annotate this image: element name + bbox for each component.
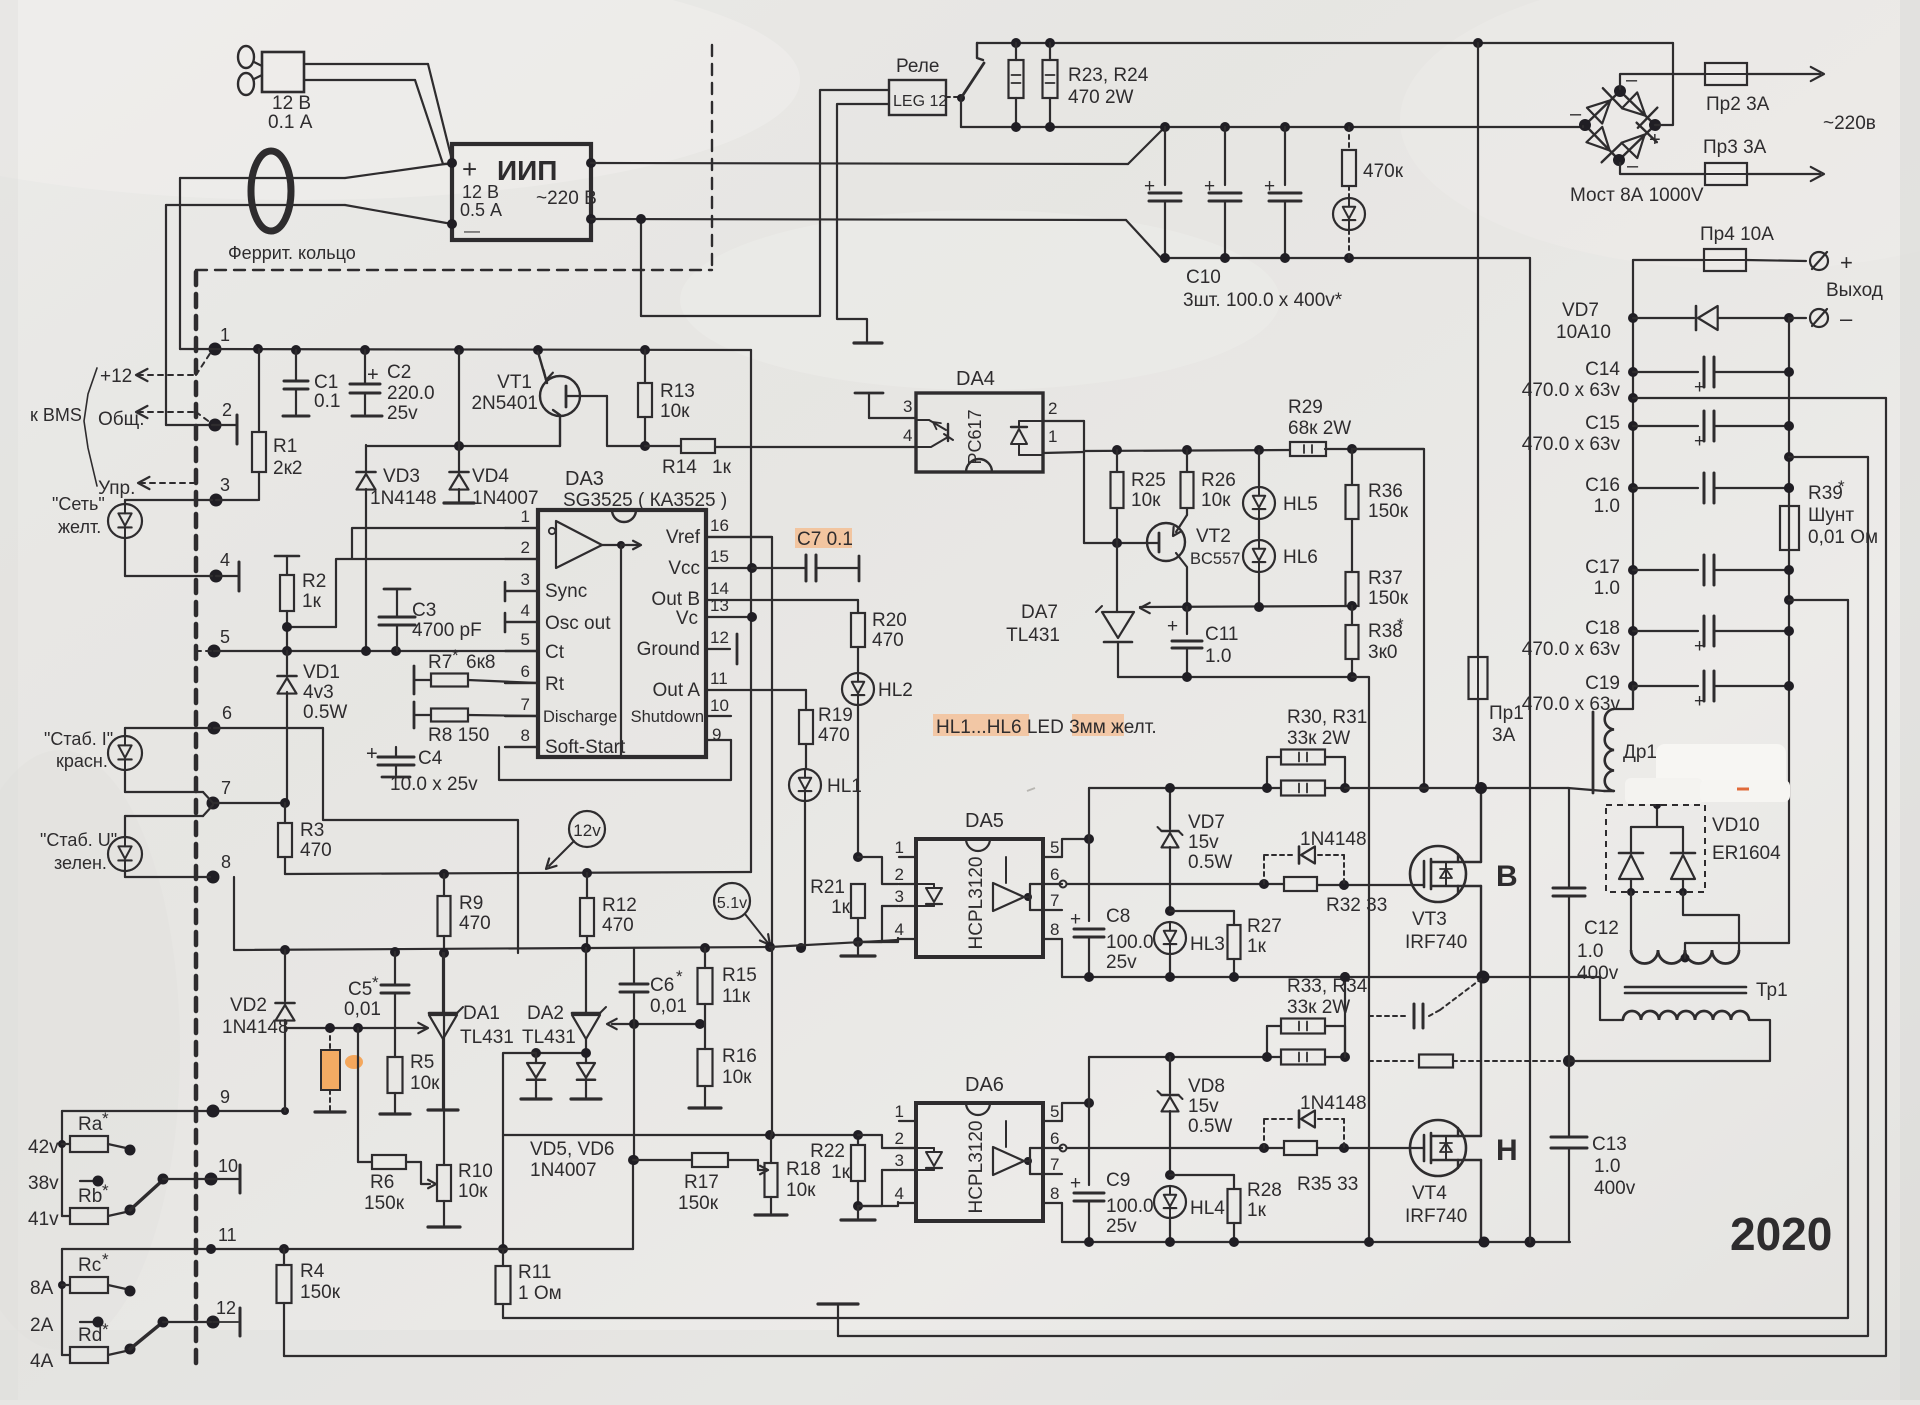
svg-text:38v: 38v bbox=[28, 1173, 59, 1194]
capacitor C10c bbox=[1264, 127, 1301, 258]
wire R6 chain bbox=[358, 1028, 372, 1162]
capacitor C3 4700pF bbox=[379, 589, 482, 651]
svg-text:PC617: PC617 bbox=[965, 409, 985, 464]
power rail 12v bbox=[285, 868, 751, 879]
svg-text:VD8: VD8 bbox=[1188, 1076, 1225, 1097]
svg-text:DA6: DA6 bbox=[965, 1074, 1004, 1096]
resistor R32 33 bbox=[1284, 877, 1387, 916]
svg-text:Soft-Start: Soft-Start bbox=[545, 737, 626, 758]
snubber diode 1N4148 bottom bbox=[1264, 1093, 1367, 1148]
wire VT4 drain bbox=[1458, 977, 1481, 1242]
relay LEG 12 bbox=[889, 56, 947, 115]
AUX PSU block IIP bbox=[447, 144, 597, 240]
svg-text:150к: 150к bbox=[300, 1282, 341, 1303]
LED HL3 bbox=[1154, 922, 1225, 977]
wire rail788 bbox=[1089, 783, 1429, 793]
svg-text:150к: 150к bbox=[678, 1193, 719, 1214]
resistor R23 bbox=[1009, 43, 1024, 127]
svg-text:1 Ом: 1 Ом bbox=[518, 1283, 562, 1304]
svg-text:0,01: 0,01 bbox=[344, 999, 381, 1020]
snubber res dashed bbox=[1369, 1055, 1575, 1068]
svg-text:R28: R28 bbox=[1247, 1180, 1282, 1201]
svg-text:2020: 2020 bbox=[1730, 1208, 1832, 1260]
border loop outer bbox=[284, 398, 1886, 1356]
resistor R7 6k8 bbox=[414, 646, 538, 694]
svg-text:8А: 8А bbox=[30, 1278, 54, 1299]
wire HL2 to DA5 pin2 bbox=[858, 857, 898, 884]
svg-text:10к: 10к bbox=[1201, 490, 1231, 511]
svg-text:R5: R5 bbox=[410, 1052, 434, 1073]
resistor R9 470 bbox=[438, 874, 491, 953]
wire ferrite upper bbox=[180, 163, 452, 178]
wire gate stub VT3 bbox=[1423, 884, 1425, 886]
svg-text:470.0 х 63v: 470.0 х 63v bbox=[1522, 434, 1621, 455]
svg-text:10A10: 10A10 bbox=[1556, 322, 1611, 343]
svg-text:6к8: 6к8 bbox=[466, 652, 495, 673]
svg-text:желт.: желт. bbox=[58, 517, 101, 537]
svg-text:8: 8 bbox=[1050, 1184, 1059, 1203]
svg-text:1N4148: 1N4148 bbox=[1300, 829, 1367, 850]
svg-text:16: 16 bbox=[710, 516, 729, 535]
wire top mains rail bbox=[977, 38, 1673, 48]
svg-text:R35 33: R35 33 bbox=[1297, 1174, 1358, 1195]
svg-text:DA7: DA7 bbox=[1021, 602, 1058, 623]
svg-text:R32 33: R32 33 bbox=[1326, 895, 1387, 916]
svg-text:R3: R3 bbox=[300, 820, 324, 841]
label 12v circle bbox=[546, 811, 605, 869]
svg-text:4v3: 4v3 bbox=[303, 682, 334, 703]
ground R22 bbox=[841, 1206, 875, 1220]
svg-text:Rc: Rc bbox=[78, 1255, 101, 1276]
svg-text:VD7: VD7 bbox=[1562, 300, 1599, 321]
wire DA6 pin2 line bbox=[898, 1147, 916, 1149]
svg-text:7: 7 bbox=[521, 695, 530, 714]
wire DA6 pin5 supply bbox=[1062, 1098, 1094, 1121]
svg-text:*: * bbox=[102, 1320, 109, 1339]
label DA3 part number bbox=[563, 490, 727, 511]
svg-text:+: + bbox=[366, 743, 378, 765]
LED Stab I red bbox=[44, 728, 213, 803]
resistor R4 150k bbox=[277, 1249, 341, 1356]
svg-text:15v: 15v bbox=[1188, 832, 1219, 853]
svg-text:R17: R17 bbox=[684, 1172, 719, 1193]
wire bus x1369 bbox=[1352, 677, 1369, 1242]
wire node6 to feedback bbox=[214, 728, 518, 953]
svg-text:+: + bbox=[1840, 250, 1853, 275]
svg-text:VD4: VD4 bbox=[472, 466, 509, 487]
wire IIP +12 output bbox=[591, 163, 1128, 164]
svg-text:VT2: VT2 bbox=[1196, 526, 1231, 547]
svg-text:Shutdown: Shutdown bbox=[631, 708, 704, 726]
wire rail 677 bbox=[1118, 672, 1357, 682]
svg-text:9: 9 bbox=[712, 725, 721, 744]
svg-text:C11: C11 bbox=[1205, 624, 1238, 645]
LED Stab U green bbox=[40, 805, 213, 877]
wire midpoint rail bbox=[1062, 971, 1600, 984]
svg-text:VD5, VD6: VD5, VD6 bbox=[530, 1139, 614, 1160]
svg-text:Тр1: Тр1 bbox=[1756, 980, 1788, 1001]
label 220v out bbox=[1823, 113, 1876, 134]
capacitor C7 0.1 bbox=[752, 528, 859, 581]
svg-text:470к: 470к bbox=[1363, 161, 1404, 182]
capacitor C8 100.0 25v bbox=[1070, 906, 1154, 977]
svg-text:R22: R22 bbox=[810, 1141, 845, 1162]
svg-text:–: – bbox=[1570, 103, 1582, 125]
ground R21 bbox=[841, 942, 875, 956]
snubber cap dashed bbox=[1369, 979, 1481, 1028]
svg-text:HL1...HL6 LED 3мм желт.: HL1...HL6 LED 3мм желт. bbox=[936, 717, 1157, 738]
svg-text:R10: R10 bbox=[458, 1161, 493, 1182]
svg-text:15v: 15v bbox=[1188, 1096, 1219, 1117]
svg-text:12: 12 bbox=[710, 628, 729, 647]
shunt R39 0.01 bbox=[1780, 477, 1878, 550]
svg-text:150к: 150к bbox=[1368, 501, 1409, 522]
LED HL6 bbox=[1243, 540, 1318, 607]
svg-text:*: * bbox=[102, 1181, 109, 1200]
bleeder resistor 470k bbox=[1342, 127, 1404, 197]
svg-text:470.0 x 63v: 470.0 x 63v bbox=[1522, 694, 1621, 715]
wire R29 to rail bbox=[1352, 449, 1424, 788]
svg-text:Реле: Реле bbox=[896, 56, 939, 77]
capacitor C14 bbox=[1522, 357, 1794, 401]
wire Vref vertical bbox=[706, 537, 772, 947]
svg-text:TL431: TL431 bbox=[522, 1027, 576, 1048]
node 5 bbox=[196, 627, 230, 658]
svg-text:+12: +12 bbox=[100, 366, 132, 387]
optocoupler DA4 PC817 bbox=[916, 368, 1043, 472]
svg-text:C4: C4 bbox=[418, 748, 443, 769]
svg-text:13: 13 bbox=[710, 596, 729, 615]
resistor R10 10k trimmer bbox=[428, 953, 493, 1227]
node 6 bbox=[208, 703, 233, 735]
resistor R31 bbox=[1262, 781, 1350, 796]
svg-text:Пр2 3А: Пр2 3А bbox=[1706, 94, 1770, 115]
svg-text:HL5: HL5 bbox=[1283, 494, 1318, 515]
svg-text:0.5 А: 0.5 А bbox=[460, 200, 502, 220]
svg-text:1к: 1к bbox=[1247, 1200, 1267, 1221]
svg-text:Out A: Out A bbox=[652, 680, 700, 701]
fan motor 12V 0.1A bbox=[238, 46, 313, 133]
svg-text:VD2: VD2 bbox=[230, 995, 267, 1016]
wire center tap bbox=[1685, 943, 1789, 958]
svg-text:R14: R14 bbox=[662, 457, 697, 478]
resistor R22 1k bbox=[810, 1130, 865, 1211]
wire bottom rail bbox=[1062, 1237, 1570, 1248]
resistor R18 10k trimmer bbox=[755, 1135, 821, 1215]
wire node5 line bbox=[214, 646, 538, 656]
MOSFET VT4 IRF740 bbox=[1405, 1120, 1518, 1227]
svg-text:C16: C16 bbox=[1585, 475, 1620, 496]
label 2020 bbox=[1730, 1208, 1832, 1260]
wire contact to rail127 bbox=[961, 98, 1016, 127]
LED HL4 bbox=[1154, 1186, 1225, 1242]
svg-text:4А: 4А bbox=[30, 1351, 54, 1372]
wire ref line 607 bbox=[1140, 601, 1357, 612]
svg-text:ER1604: ER1604 bbox=[1712, 843, 1781, 864]
svg-text:C12: C12 bbox=[1584, 918, 1619, 939]
wire node9 link bbox=[213, 1107, 289, 1115]
LED HL1 bbox=[789, 744, 862, 948]
wire base drop bbox=[607, 396, 650, 451]
svg-text:10к: 10к bbox=[458, 1181, 488, 1202]
wire choke to VD10 bbox=[1653, 791, 1661, 827]
svg-text:R7: R7 bbox=[428, 652, 452, 673]
svg-text:12 В: 12 В bbox=[272, 93, 311, 114]
svg-text:DA1: DA1 bbox=[463, 1003, 500, 1024]
svg-text:+: + bbox=[367, 364, 379, 386]
svg-text:33к 2W: 33к 2W bbox=[1287, 728, 1350, 749]
svg-text:3: 3 bbox=[895, 1151, 904, 1170]
svg-text:6: 6 bbox=[521, 662, 530, 681]
wire R22 to DA6 pins bbox=[858, 1135, 898, 1206]
svg-text:Rt: Rt bbox=[545, 674, 565, 695]
svg-text:R15: R15 bbox=[722, 965, 757, 986]
svg-text:1: 1 bbox=[895, 838, 904, 857]
svg-text:Vref: Vref bbox=[666, 527, 701, 548]
svg-text:Пр1: Пр1 bbox=[1489, 703, 1524, 724]
svg-text:8: 8 bbox=[221, 852, 231, 872]
diode VD5 bbox=[521, 1048, 586, 1099]
svg-text:12: 12 bbox=[216, 1298, 236, 1318]
zener VD8 15v bbox=[1158, 1057, 1233, 1180]
svg-text:–: – bbox=[1840, 306, 1853, 331]
svg-text:470: 470 bbox=[872, 630, 904, 651]
wire Vref feed DA5 pin4 bbox=[770, 940, 898, 947]
capacitor C6 bbox=[620, 948, 687, 1024]
wire fan to AUX PSU bbox=[304, 64, 452, 164]
LED HL5 bbox=[1243, 450, 1318, 540]
svg-text:2к2: 2к2 bbox=[273, 458, 302, 479]
optocoupler driver DA5 bbox=[895, 810, 1062, 957]
svg-text:11: 11 bbox=[218, 1225, 237, 1245]
svg-text:ИИП: ИИП bbox=[497, 155, 557, 186]
svg-text:8: 8 bbox=[1050, 920, 1059, 939]
resistor R33 bbox=[1267, 976, 1368, 1057]
resistor R24 bbox=[1043, 43, 1149, 127]
svg-text:R33, R34: R33, R34 bbox=[1287, 976, 1368, 997]
svg-text:0.5W: 0.5W bbox=[1188, 1116, 1232, 1137]
svg-text:C19: C19 bbox=[1585, 673, 1620, 694]
resistor R8 150 bbox=[414, 702, 538, 746]
svg-text:400v: 400v bbox=[1577, 963, 1619, 984]
svg-text:2: 2 bbox=[521, 538, 530, 557]
svg-text:25v: 25v bbox=[1106, 1216, 1137, 1237]
svg-text:1N4148: 1N4148 bbox=[370, 488, 437, 509]
svg-text:+: + bbox=[1694, 377, 1705, 398]
wire hv minus bus bbox=[1529, 258, 1531, 1242]
wire DA5 pin5 supply bbox=[1062, 834, 1094, 857]
selector Rc Rd bbox=[30, 1249, 240, 1372]
svg-text:*: * bbox=[102, 1250, 109, 1269]
arrow Upr bbox=[98, 477, 196, 499]
svg-text:R19: R19 bbox=[818, 705, 853, 726]
wire DA5 pin8 down bbox=[1061, 939, 1063, 977]
svg-text:+: + bbox=[1070, 909, 1081, 930]
capacitor C4 bbox=[366, 743, 478, 795]
svg-text:5: 5 bbox=[1050, 1102, 1059, 1121]
svg-text:1к: 1к bbox=[831, 897, 851, 918]
svg-text:SG3525 ( КА3525 ): SG3525 ( КА3525 ) bbox=[563, 490, 727, 511]
transistor VT2 BC557 bbox=[1147, 515, 1240, 607]
svg-text:2А: 2А bbox=[30, 1315, 54, 1336]
border loop inner bbox=[503, 600, 1848, 1318]
dashed partition horizontal bbox=[196, 269, 712, 271]
wire DA2 ref arrow bbox=[607, 1019, 705, 1029]
svg-text:5: 5 bbox=[1050, 838, 1059, 857]
svg-text:1N4148: 1N4148 bbox=[222, 1017, 289, 1038]
label VD10 bbox=[1712, 815, 1781, 864]
label k BMS bbox=[30, 368, 97, 486]
resistor R17 150k bbox=[633, 1153, 758, 1214]
border loop middle bbox=[818, 457, 1868, 1336]
wire gate drive line B bbox=[1060, 879, 1425, 890]
resistor R21 1k bbox=[810, 877, 865, 947]
svg-text:IRF740: IRF740 bbox=[1405, 1206, 1467, 1227]
svg-text:4: 4 bbox=[220, 550, 230, 570]
svg-text:C18: C18 bbox=[1585, 618, 1620, 639]
svg-text:2: 2 bbox=[895, 865, 904, 884]
svg-text:HCPL3120: HCPL3120 bbox=[966, 1121, 987, 1214]
svg-text:11к: 11к bbox=[722, 986, 751, 1007]
resistor R35 33 bbox=[1284, 1141, 1358, 1195]
svg-text:R11: R11 bbox=[518, 1262, 551, 1283]
transistor VT1 2N5401 bbox=[471, 352, 607, 446]
svg-text:*: * bbox=[452, 646, 459, 665]
wire relay coil 1 bbox=[636, 90, 889, 316]
svg-text:6: 6 bbox=[1050, 865, 1059, 884]
svg-text:7: 7 bbox=[221, 778, 231, 798]
svg-text:VT1: VT1 bbox=[497, 372, 532, 393]
resistor R3 470 bbox=[278, 803, 332, 874]
svg-text:+: + bbox=[1070, 1173, 1081, 1194]
svg-text:C5: C5 bbox=[348, 979, 372, 1000]
svg-text:0.5W: 0.5W bbox=[1188, 852, 1232, 873]
IC DA3 SG3525 bbox=[505, 468, 858, 758]
svg-text:*: * bbox=[102, 1109, 109, 1128]
wire pin8 pin9 loop bbox=[499, 740, 731, 780]
svg-text:4: 4 bbox=[895, 920, 904, 939]
svg-text:10к: 10к bbox=[660, 401, 690, 422]
svg-text:6: 6 bbox=[222, 703, 232, 723]
capacitor C11 1.0 bbox=[1167, 607, 1238, 677]
svg-text:470: 470 bbox=[602, 915, 634, 936]
capacitor C2 bbox=[350, 350, 435, 424]
resistor R37 150k bbox=[1346, 519, 1409, 609]
capacitor C18 bbox=[1522, 616, 1794, 660]
svg-text:+: + bbox=[1649, 129, 1661, 151]
selector Ra Rb bbox=[28, 1087, 240, 1230]
diode VD6 bbox=[571, 1048, 601, 1099]
svg-text:10к: 10к bbox=[1131, 490, 1161, 511]
wire diag to cap bank bottom bbox=[1126, 220, 1161, 258]
svg-text:HL1: HL1 bbox=[827, 776, 862, 797]
diode VD10 left bbox=[1619, 827, 1643, 896]
svg-text:IRF740: IRF740 bbox=[1405, 932, 1467, 953]
svg-text:C6: C6 bbox=[650, 975, 674, 996]
svg-text:C15: C15 bbox=[1585, 413, 1620, 434]
node 8 bbox=[207, 852, 232, 884]
resistor R25 10k bbox=[1111, 450, 1166, 543]
wire relay coil 2 to ground bbox=[837, 104, 889, 343]
svg-text:R12: R12 bbox=[602, 895, 637, 916]
wire VD3-VD4-collector bbox=[366, 441, 560, 451]
wire Vcc bus bbox=[747, 350, 757, 872]
supply rail VT4 section bbox=[1088, 1057, 1090, 1185]
wire node7 R3 bbox=[213, 798, 290, 808]
svg-text:3шт. 100.0 х 400v*: 3шт. 100.0 х 400v* bbox=[1183, 290, 1343, 311]
svg-text:1к: 1к bbox=[831, 1162, 851, 1183]
optocoupler driver DA6 bbox=[895, 1074, 1062, 1221]
svg-text:470: 470 bbox=[818, 725, 850, 746]
capacitor C16 bbox=[1585, 473, 1794, 517]
svg-text:1: 1 bbox=[895, 1102, 904, 1121]
svg-text:R9: R9 bbox=[459, 893, 483, 914]
wire DA2 loop to R11 bbox=[498, 1053, 536, 1254]
svg-text:C9: C9 bbox=[1106, 1170, 1130, 1191]
TL431 DA1 bbox=[428, 953, 514, 1110]
svg-text:C17: C17 bbox=[1585, 557, 1620, 578]
wire diag to cap bank top bbox=[1128, 127, 1165, 164]
svg-text:TL431: TL431 bbox=[1006, 625, 1060, 646]
label VD5 VD6 bbox=[530, 1139, 614, 1181]
capacitor C5 bbox=[344, 952, 409, 1028]
svg-text:12 В: 12 В bbox=[462, 182, 499, 202]
svg-text:1N4007: 1N4007 bbox=[530, 1160, 597, 1181]
svg-text:R2: R2 bbox=[302, 571, 326, 592]
svg-text:Мост 8А 1000V: Мост 8А 1000V bbox=[1570, 185, 1704, 206]
svg-text:Шунт: Шунт bbox=[1808, 505, 1854, 526]
svg-text:R21: R21 bbox=[810, 877, 845, 898]
svg-text:R27: R27 bbox=[1247, 916, 1282, 937]
svg-text:470.0 х 63v: 470.0 х 63v bbox=[1522, 639, 1621, 660]
wire dc minus rail bbox=[1160, 253, 1530, 263]
sense line 2 bbox=[1784, 452, 1868, 462]
svg-text:+: + bbox=[1694, 636, 1705, 657]
svg-text:10к: 10к bbox=[722, 1067, 752, 1088]
svg-text:LEG 12: LEG 12 bbox=[893, 93, 947, 110]
fuse Pr1 3A bbox=[1469, 43, 1524, 794]
svg-text:C2: C2 bbox=[387, 362, 411, 383]
resistor R19 470 bbox=[799, 690, 853, 746]
svg-text:470: 470 bbox=[459, 913, 491, 934]
svg-text:15: 15 bbox=[710, 547, 729, 566]
svg-text:R8 150: R8 150 bbox=[428, 725, 489, 746]
svg-text:DA2: DA2 bbox=[527, 1003, 564, 1024]
svg-text:41v: 41v bbox=[28, 1209, 59, 1230]
TL431 DA7 bbox=[1006, 543, 1150, 677]
svg-text:~220в: ~220в bbox=[1823, 113, 1876, 134]
wire VD10 top bbox=[1631, 826, 1683, 828]
svg-text:R23, R24: R23, R24 bbox=[1068, 65, 1149, 86]
wire bridge left bbox=[1582, 126, 1584, 127]
LED Set yellow bbox=[52, 494, 212, 576]
label Vyhod bbox=[1826, 280, 1883, 301]
svg-text:100.0: 100.0 bbox=[1106, 1196, 1154, 1217]
snubber diode 1N4148 top bbox=[1264, 829, 1367, 885]
svg-text:220.0: 220.0 bbox=[387, 383, 435, 404]
svg-text:100.0: 100.0 bbox=[1106, 932, 1154, 953]
svg-text:10: 10 bbox=[710, 696, 729, 715]
svg-text:3А: 3А bbox=[1492, 725, 1516, 746]
svg-text:*: * bbox=[1838, 477, 1845, 496]
svg-text:470: 470 bbox=[300, 840, 332, 861]
svg-text:C1: C1 bbox=[314, 372, 338, 393]
svg-text:Osc out: Osc out bbox=[545, 613, 611, 634]
svg-text:VD1: VD1 bbox=[303, 662, 340, 683]
transformer secondary bbox=[1631, 950, 1739, 964]
ferrite ring bbox=[228, 151, 356, 263]
svg-text:Vc: Vc bbox=[676, 608, 698, 629]
